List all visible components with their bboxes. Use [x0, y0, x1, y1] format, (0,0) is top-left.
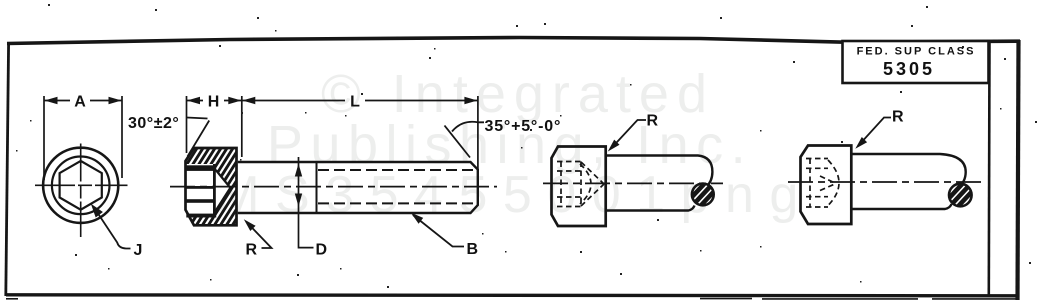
svg-text:MS35455001png: MS35455001png [216, 166, 814, 224]
svg-text:J: J [134, 242, 143, 259]
view 2 socket cone (white with edges) [216, 170, 231, 211]
R leader (view 3) [611, 120, 646, 149]
R leader (view 4) [859, 118, 892, 146]
title block box [843, 41, 989, 83]
view 4 shank top with break curve [853, 154, 966, 188]
svg-text:R: R [246, 242, 258, 259]
view 3 shank bottom [607, 206, 695, 211]
view 2 shank outline [238, 162, 478, 213]
J socket leader [95, 209, 131, 249]
svg-text:R: R [647, 113, 659, 130]
R fillet leader (view 2) [247, 222, 272, 248]
svg-text:30°±2°: 30°±2° [128, 115, 179, 132]
view 1 middle circle (chamfer) [52, 157, 110, 215]
view 4 centerline [788, 181, 983, 183]
svg-text:FED. SUP CLASS: FED. SUP CLASS [857, 46, 976, 58]
svg-text:35°+5°-0°: 35°+5°-0° [485, 118, 562, 135]
drawing frame: top border [7, 38, 1020, 44]
view 1 centerline horizontal [35, 184, 128, 186]
dimension D arrow line + elbow [299, 157, 314, 248]
view 2 socket cavity (white) [186, 164, 216, 218]
dimension H extension line right / L extension left [241, 96, 243, 157]
B thread leader [413, 215, 464, 247]
35° chamfer construction line [445, 126, 471, 158]
view 3 centerline [543, 182, 723, 184]
dimension H line + arrows [187, 100, 241, 102]
svg-text:L: L [350, 94, 360, 111]
view 1 hex socket [60, 161, 102, 210]
dimension A extension line right [121, 96, 123, 178]
view 2 socket cavity bars [186, 164, 216, 218]
svg-text:R: R [892, 109, 904, 126]
dimension A line + arrows [45, 100, 122, 102]
view 3 head outline [552, 147, 606, 227]
svg-text:H: H [208, 94, 220, 111]
page-edge marks below bottom border [6, 298, 1018, 300]
dimension L extension line right [477, 96, 479, 170]
view 2 thread minor dia dashed bottom [318, 202, 477, 204]
view 4 shank bottom [853, 204, 952, 209]
view 4 hidden socket dashed lines [806, 159, 839, 208]
svg-text:5305: 5305 [883, 59, 935, 79]
drawing frame: right border [1018, 40, 1019, 300]
svg-text:B: B [467, 241, 479, 258]
view 2 head outline [186, 148, 237, 225]
view 2 centerline [170, 186, 497, 188]
view 2 head section hatching [140, 145, 301, 229]
view 1 centerline vertical [80, 144, 82, 238]
view 3 shank top with break curve [607, 156, 713, 188]
drawing frame: bottom border [6, 295, 1019, 296]
inner vertical rule right of drawing area [987, 41, 990, 295]
svg-text:A: A [74, 94, 86, 111]
30° leader (horizontal + angled stroke to head chamfer) [187, 118, 210, 157]
view 3 hidden socket dashed lines [557, 162, 604, 207]
35° leader arc [452, 122, 484, 132]
view 4 head outline [801, 146, 852, 225]
view 2 thread minor dia dashed top [318, 169, 477, 171]
svg-text:D: D [316, 242, 328, 259]
drawing frame: left border [6, 42, 9, 296]
dimension H extension line left [186, 96, 188, 153]
view 2 thread start line [316, 162, 318, 213]
dimension L line + arrows [242, 100, 477, 102]
view 1 outer circle (head O.D.) [43, 148, 118, 223]
dimension A extension line left [43, 96, 45, 180]
